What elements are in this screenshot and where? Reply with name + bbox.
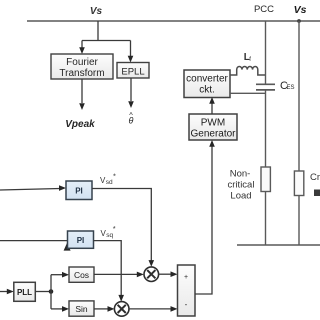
svg-text:-: - bbox=[185, 300, 188, 309]
svg-text:PI: PI bbox=[75, 186, 83, 195]
svg-text:Critical: Critical bbox=[310, 172, 320, 183]
svg-text:sd: sd bbox=[106, 179, 113, 186]
svg-text:+: + bbox=[184, 274, 188, 281]
block: summing comparator bbox=[178, 265, 196, 316]
wire: PWM Generator to converter ckt. arrow bbox=[211, 103, 213, 115]
wire: converter return path to capacitor bottom bbox=[230, 92, 266, 94]
wire: Sin output arrow to multiplier M2 bbox=[94, 308, 109, 310]
wire: Fourier output arrow to Vpeak bbox=[81, 79, 83, 103]
wire: tap from bus down to measurement branch bbox=[82, 21, 131, 41]
wire: Cos output arrow to multiplier M1 bbox=[94, 273, 138, 275]
wire: arrow into Fourier Transform bbox=[81, 41, 83, 49]
junction dot on bus at Vs branch bbox=[297, 19, 301, 23]
svg-text:Fourier: Fourier bbox=[66, 57, 98, 68]
resistor R2 (critical load) bbox=[294, 171, 303, 196]
svg-text:ES: ES bbox=[287, 85, 295, 91]
wire: arrow into Sin bbox=[51, 308, 63, 310]
wire: top source bus Vs bbox=[27, 20, 320, 22]
svg-text:PWM: PWM bbox=[201, 118, 225, 129]
svg-text:Vs: Vs bbox=[90, 6, 103, 17]
resistor R1 (non-critical load) bbox=[261, 167, 270, 192]
block: PI controller 2 bbox=[68, 231, 94, 248]
wire: error input into PI2 bbox=[0, 240, 68, 242]
block: Sin bbox=[69, 301, 94, 316]
wire: Vs branch vertical to critical load bbox=[298, 21, 300, 171]
wire: non-critical load to bottom rail bbox=[265, 192, 267, 246]
wire: PLL output to junction bbox=[35, 291, 51, 293]
svg-text:PLL: PLL bbox=[17, 288, 32, 297]
wire: PI1 output to multiplier M1 bbox=[92, 189, 151, 262]
block: PWM Generator bbox=[189, 114, 237, 140]
svg-text:f: f bbox=[249, 57, 251, 63]
svg-text:*: * bbox=[113, 224, 116, 233]
wire: M1 output arrow to summer plus input bbox=[159, 273, 172, 275]
wire: capacitor to non-critical load bbox=[265, 90, 267, 167]
svg-text:Vpeak: Vpeak bbox=[65, 119, 95, 130]
wire: bottom rail bbox=[237, 244, 320, 246]
svg-text:ckt.: ckt. bbox=[199, 85, 215, 96]
block: Cos bbox=[69, 267, 94, 282]
wire: input arrow into PLL bbox=[0, 291, 8, 293]
svg-text:Load: Load bbox=[230, 191, 251, 202]
wire: EPLL output arrow to theta-hat bbox=[130, 78, 132, 101]
multiplier M2 (X circle) bbox=[114, 302, 129, 317]
svg-text:critical: critical bbox=[228, 180, 255, 191]
svg-text:PCC: PCC bbox=[254, 4, 274, 15]
wire: PI2 output to multiplier M2 bbox=[94, 241, 122, 296]
junction dot after PLL bbox=[49, 289, 54, 294]
svg-text:Sin: Sin bbox=[75, 304, 88, 314]
block: PLL bbox=[14, 282, 36, 301]
block: converter ckt. bbox=[184, 70, 230, 98]
block: Fourier Transform U1 bbox=[51, 54, 113, 79]
block: PI controller 1 bbox=[66, 181, 92, 200]
wire: summer output feedback up to PWM Generator bbox=[195, 146, 212, 295]
wire: error input arrow into PI1 bbox=[0, 189, 60, 191]
svg-text:Generator: Generator bbox=[190, 129, 236, 140]
svg-text:Cos: Cos bbox=[74, 270, 89, 280]
wire: critical load to bottom rail bbox=[298, 196, 300, 246]
multiplier M1 (X circle) bbox=[144, 267, 159, 282]
block: EPLL U2 bbox=[117, 63, 149, 79]
wire: junction branch vertical bbox=[50, 275, 52, 309]
svg-text:θ: θ bbox=[129, 116, 134, 126]
wire: arrow into EPLL bbox=[130, 41, 132, 57]
svg-text:converter: converter bbox=[186, 74, 228, 85]
svg-text:Transform: Transform bbox=[59, 68, 104, 79]
svg-text:Non-: Non- bbox=[230, 169, 251, 180]
svg-text:Vs: Vs bbox=[294, 4, 307, 16]
wire: arrow into Cos bbox=[51, 274, 63, 276]
svg-text:EPLL: EPLL bbox=[121, 67, 144, 78]
svg-text:PI: PI bbox=[77, 236, 85, 245]
inductor Lf bbox=[230, 66, 266, 75]
capacitor CES bbox=[256, 83, 275, 85]
svg-text:*: * bbox=[113, 172, 116, 181]
wire: PCC branch vertical (bus to capacitor) bbox=[265, 21, 267, 84]
wire: M2 output arrow to summer minus input bbox=[129, 308, 172, 310]
